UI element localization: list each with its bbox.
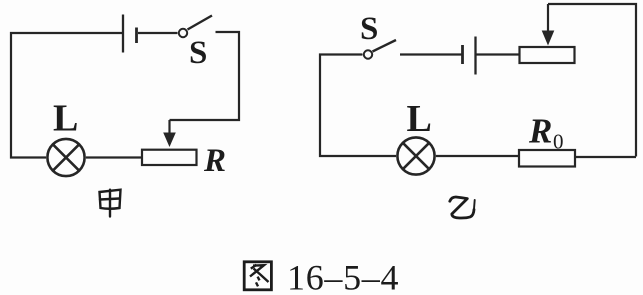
wire: R0 to right side (right circuit bottom-right) <box>576 156 636 158</box>
wire: wiper up, across top and down right side (right circuit) <box>548 4 636 157</box>
switch S (left circuit): pivot circle <box>179 29 187 37</box>
rheostat R wiper arrow (left circuit) <box>163 120 176 147</box>
wire: left circuit left side + top rail (lamp L up to battery) <box>11 33 122 158</box>
svg-text:R: R <box>203 143 226 179</box>
wire: lamp to R0 (right circuit bottom) <box>436 155 519 157</box>
battery G2 (right circuit): short plate <box>461 45 464 64</box>
wire: lamp to switch (right circuit left side + top rail) <box>320 55 396 157</box>
label R0 (right circuit) <box>528 112 564 154</box>
battery G1 (left circuit): short plate <box>135 28 138 44</box>
caption 图 (drawn glyph) <box>244 262 271 290</box>
label 甲 (jiǎ) below left circuit <box>100 190 121 217</box>
svg-text:S: S <box>189 35 207 71</box>
wire: rheostat to lamp (left circuit bottom) <box>86 156 142 158</box>
wire: battery to rheostat (right circuit) <box>477 53 519 55</box>
svg-text:L: L <box>407 98 432 140</box>
switch S (right circuit): pivot circle <box>364 50 372 58</box>
wire: battery to switch (left circuit) <box>138 32 178 34</box>
svg-text:S: S <box>360 11 378 47</box>
svg-text:R: R <box>528 112 552 151</box>
rheostat wiper arrow (right circuit) <box>542 4 555 46</box>
lamp L (right circuit) <box>397 137 434 174</box>
lamp L (left circuit) <box>47 139 84 176</box>
svg-text:0: 0 <box>553 130 564 154</box>
label 乙 (yǐ) below right circuit <box>450 197 475 218</box>
rheostat R body (left circuit) <box>142 150 197 165</box>
wire: switch to battery (right circuit) <box>400 53 462 55</box>
switch S (left circuit): blade <box>188 16 213 30</box>
switch S (right circuit): blade <box>373 40 397 52</box>
wire: switch to rheostat wiper (right side of left circuit) <box>170 32 240 120</box>
svg-text:L: L <box>53 98 78 140</box>
battery G2 (right circuit): long plate <box>474 37 476 75</box>
battery G1 (left circuit): long plate <box>122 15 124 53</box>
resistor R0 body (right circuit) <box>519 150 575 167</box>
rheostat body (right circuit, slide rheostat) <box>520 47 575 63</box>
svg-text:16–5–4: 16–5–4 <box>287 258 399 295</box>
